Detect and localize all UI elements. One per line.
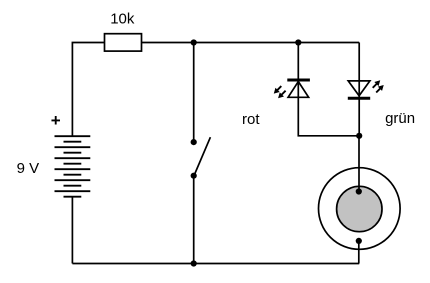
LED D1 rot (cathode up) (274, 80, 310, 98)
wire: switch branch lower segment (193, 176, 195, 264)
wire: switch branch upper segment (193, 43, 195, 141)
node: junction top rail / switch branch (191, 39, 197, 45)
switch S1 (open) (191, 137, 211, 179)
svg-text:+: + (51, 111, 61, 130)
battery B1 9V (6 cells, long/short plates) (55, 136, 91, 197)
svg-text:10k: 10k (110, 11, 135, 28)
motor terminal bottom (356, 238, 362, 244)
wire: green LED branch from top-right corner down to lower junction (358, 43, 360, 136)
wire: bottom rail (72, 263, 359, 265)
wire: red LED branch (through diode) down to lower junction (298, 43, 359, 136)
motor M1 outer housing (319, 168, 401, 250)
resistor R1 body (105, 34, 142, 51)
motor terminal top (356, 188, 362, 194)
LED D2 gruen (cathode down) (348, 81, 384, 99)
node: junction of LED branches (356, 133, 362, 139)
wire: left rail from battery + up and right to resistor (72, 43, 104, 137)
wire: motor bottom terminal down to bottom rail (358, 241, 360, 264)
wire: lower junction down to motor top terminal (358, 136, 360, 192)
wire: top rail from resistor to top-right corner (142, 42, 360, 44)
svg-text:9 V: 9 V (17, 160, 40, 177)
node: junction top rail / red LED branch (295, 39, 301, 45)
svg-text:grün: grün (385, 110, 415, 127)
motor M1 rotor (gray) (337, 186, 382, 231)
wire: battery - terminal down to bottom rail (71, 197, 73, 264)
node: junction bottom rail / switch branch (191, 260, 197, 266)
svg-text:rot: rot (242, 111, 260, 128)
